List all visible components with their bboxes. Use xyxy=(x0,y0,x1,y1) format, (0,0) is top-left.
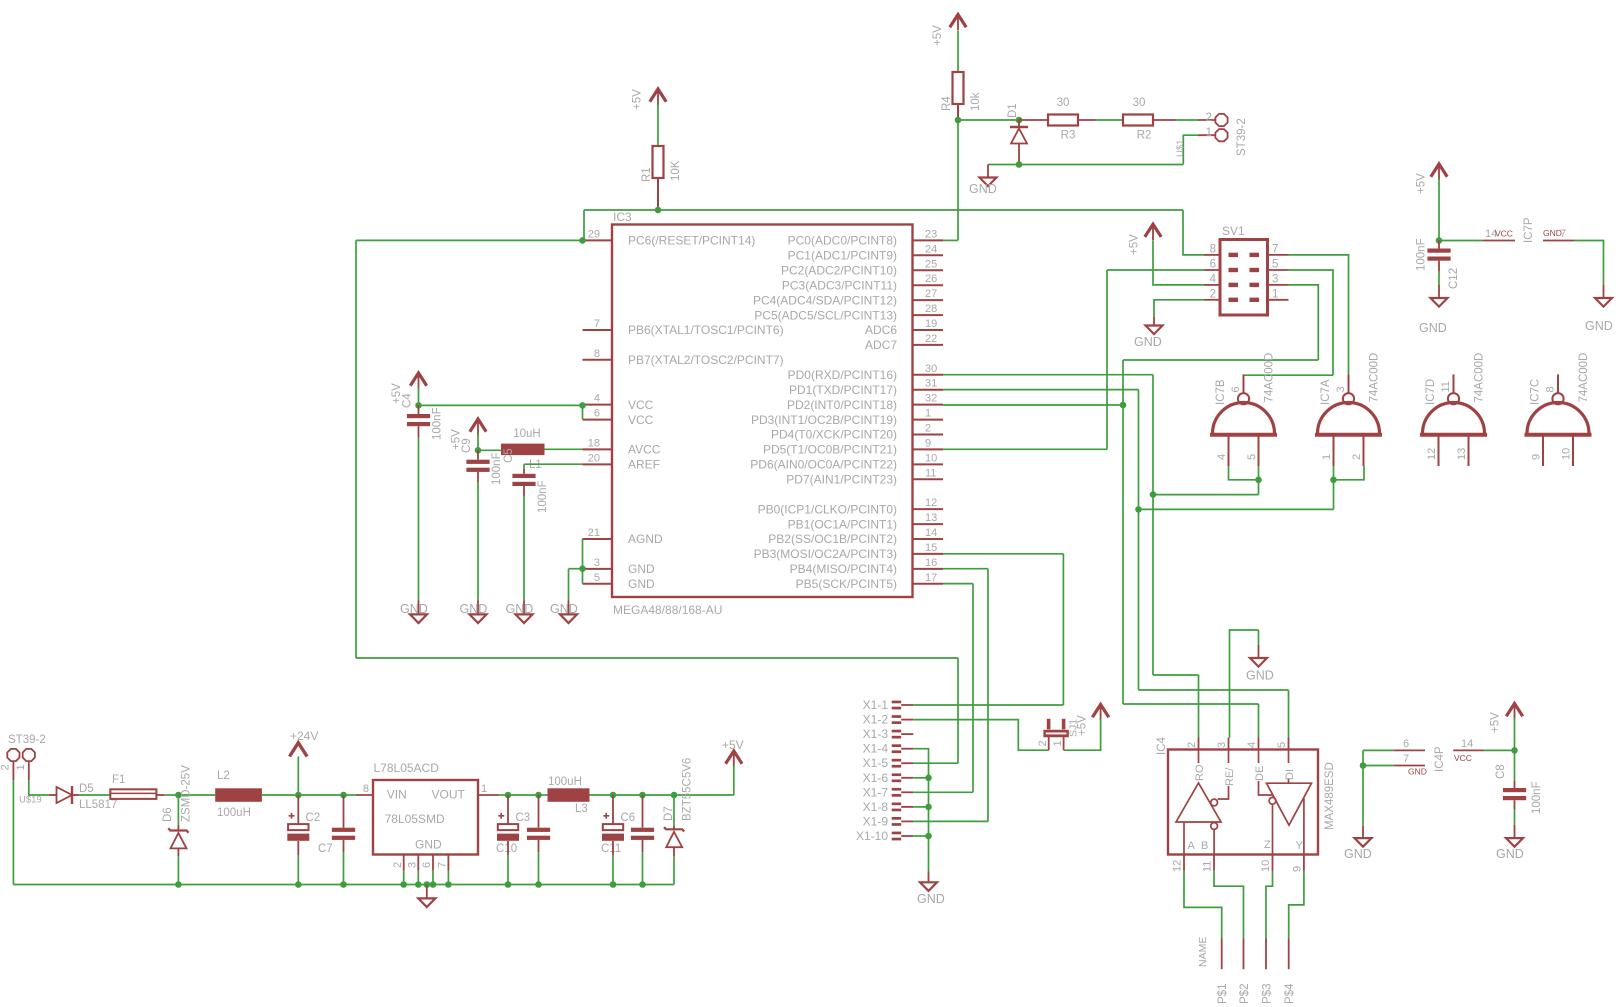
wire DE net horizontal xyxy=(1123,703,1259,705)
wire C12 to GND xyxy=(1438,271,1440,285)
svg-text:3: 3 xyxy=(407,862,419,868)
svg-text:GND: GND xyxy=(460,602,488,616)
+5V supply arrow xyxy=(410,373,426,386)
wire MOSI vertical xyxy=(1062,554,1064,705)
junction DI net xyxy=(1135,506,1142,513)
wire DI net to pin 5 xyxy=(1288,690,1290,738)
wire pin 32 INT0 xyxy=(943,404,1123,406)
wire +24V arrow to node xyxy=(297,757,299,796)
IC3 pin 28 PC5(ADC5/SCL/PCINT13) (right) xyxy=(913,314,944,316)
connector U$1 ST39-2 pin 1 stub xyxy=(1198,134,1215,136)
svg-text:100nF: 100nF xyxy=(1416,238,1428,271)
junction C7 top xyxy=(340,792,347,799)
svg-text:+5V: +5V xyxy=(932,25,944,46)
svg-text:VIN: VIN xyxy=(387,788,407,802)
svg-text:1: 1 xyxy=(1052,740,1064,746)
wire pin 31 TXD xyxy=(943,389,1139,391)
ground symbol (SV1) xyxy=(1146,326,1163,335)
wire DI net to IC7A inputs xyxy=(1139,508,1334,510)
wire X1-10 xyxy=(913,835,928,837)
ground symbol (D1) xyxy=(980,178,997,187)
wire +5V to R4 xyxy=(957,31,959,72)
svg-text:2: 2 xyxy=(0,764,12,770)
svg-text:GND: GND xyxy=(628,577,655,591)
svg-text:ADC7: ADC7 xyxy=(865,338,897,352)
svg-text:R4: R4 xyxy=(941,96,953,111)
svg-text:2: 2 xyxy=(1210,288,1216,300)
svg-text:C10: C10 xyxy=(496,843,517,855)
svg-text:PB5(SCK/PCINT5): PB5(SCK/PCINT5) xyxy=(796,577,897,591)
wire X1-6 xyxy=(913,777,928,779)
svg-text:10: 10 xyxy=(1561,448,1573,460)
wire B to P$2 xyxy=(1214,871,1244,939)
svg-text:27: 27 xyxy=(925,288,937,300)
resistor R4 xyxy=(953,72,964,104)
svg-text:U$1: U$1 xyxy=(1175,140,1186,157)
svg-text:PD3(INT1/OC2B/PCINT19): PD3(INT1/OC2B/PCINT19) xyxy=(751,413,897,427)
svg-text:PC3(ADC3/PCINT11): PC3(ADC3/PCINT11) xyxy=(782,278,897,292)
wire SV1 pin5 down xyxy=(1289,270,1334,375)
IC3 pin 7 PB6(XTAL1/TOSC1/PCINT6) (left) xyxy=(583,329,613,331)
pad ST39-2 pin 2 (bottom) xyxy=(7,749,19,761)
svg-text:PB6(XTAL1/TOSC1/PCINT6): PB6(XTAL1/TOSC1/PCINT6) xyxy=(628,323,784,337)
wire xyxy=(613,794,643,796)
wire RE to GND xyxy=(1230,630,1259,738)
ground symbol (X1) xyxy=(920,882,937,891)
svg-text:ST39-2: ST39-2 xyxy=(1236,118,1248,156)
svg-text:13: 13 xyxy=(1456,448,1468,460)
78L05 pin 7 (bottom) xyxy=(447,855,449,871)
svg-text:IC7P: IC7P xyxy=(1523,217,1535,243)
ground symbol (C4) xyxy=(410,614,427,623)
wire IC7A inputs tie xyxy=(1334,466,1365,480)
svg-text:GND: GND xyxy=(1496,847,1524,861)
svg-text:BZT55C5V6: BZT55C5V6 xyxy=(682,758,694,821)
svg-text:6: 6 xyxy=(421,862,433,868)
svg-text:25: 25 xyxy=(925,258,937,270)
wire X1-9 MISO xyxy=(913,820,988,822)
svg-text:L3: L3 xyxy=(575,803,588,815)
zener diode D7 BZT55C5V6 xyxy=(664,826,684,856)
wire xyxy=(539,794,548,796)
+5V supply arrow xyxy=(1431,164,1447,177)
svg-text:D7: D7 xyxy=(663,806,675,821)
IC3 ATmega box xyxy=(612,225,913,598)
wire IC4P pin7 xyxy=(1363,765,1394,767)
wire L2 to +24V node xyxy=(262,794,298,796)
SV1 pin 7 (right) xyxy=(1268,254,1289,256)
svg-text:2: 2 xyxy=(1186,742,1198,748)
wire IC7P GND pin to ground xyxy=(1574,241,1604,286)
svg-text:4: 4 xyxy=(1210,273,1217,285)
capacitor C10 (electrolytic) xyxy=(497,813,519,841)
IC4 pin 10 (bottom) xyxy=(1272,855,1274,871)
svg-text:3: 3 xyxy=(1335,386,1347,392)
wire pin23 stub link xyxy=(943,239,958,241)
svg-text:SV1: SV1 xyxy=(1222,224,1245,238)
svg-text:10K: 10K xyxy=(670,160,682,181)
svg-text:5: 5 xyxy=(1272,259,1278,271)
wire +5V to SV1 pin4 xyxy=(1153,241,1204,285)
IC3 pin 30 PD0(RXD/PCINT16) (right) xyxy=(913,374,944,376)
svg-text:10: 10 xyxy=(925,452,937,464)
IC4 pin 4 (top) xyxy=(1258,738,1260,750)
IC3 pin 24 PC1(ADC1/PCINT9) (right) xyxy=(913,254,944,256)
IC1 78L05 box xyxy=(373,780,478,855)
svg-text:1: 1 xyxy=(1321,454,1333,460)
wire Z to P$3 xyxy=(1266,871,1273,939)
svg-text:20: 20 xyxy=(588,452,600,464)
junction C12 / VCC pin xyxy=(1436,237,1443,244)
svg-text:7: 7 xyxy=(1560,228,1566,240)
svg-text:+5V: +5V xyxy=(1129,234,1141,255)
svg-text:ZSMD-25V: ZSMD-25V xyxy=(181,765,193,822)
svg-text:MEGA48/88/168-AU: MEGA48/88/168-AU xyxy=(613,603,722,617)
junction C7 bus xyxy=(340,881,347,888)
IC4 pin 12 (bottom) xyxy=(1183,855,1185,871)
ground symbol (C8) xyxy=(1506,838,1523,847)
wire +5V down to C12/VCC xyxy=(1438,178,1440,241)
svg-text:28: 28 xyxy=(925,303,937,315)
svg-text:P$1: P$1 xyxy=(1217,984,1229,1004)
wire to D7 xyxy=(673,795,675,826)
78L05 pin 6 (bottom) xyxy=(432,855,434,871)
junction D7 top xyxy=(671,792,678,799)
svg-text:22: 22 xyxy=(925,333,937,345)
svg-text:D1: D1 xyxy=(1007,103,1019,118)
wire SV1 pin3 down xyxy=(1289,285,1319,360)
IC3 pin 15 PB3(MOSI/OC2A/PCINT3) (right) xyxy=(913,553,944,555)
SV1 pin 3 (right) xyxy=(1268,284,1289,286)
wire IC4P to ground xyxy=(1362,766,1364,826)
svg-text:+5V: +5V xyxy=(632,89,644,110)
resistor R1 xyxy=(653,146,664,178)
svg-text:IC4: IC4 xyxy=(1156,737,1168,756)
pad ST39-2 pin 1 (bottom) xyxy=(23,749,35,761)
IC4 MAX489ESD box xyxy=(1168,750,1318,855)
connector pin X1-4 xyxy=(892,744,902,753)
svg-text:R2: R2 xyxy=(1137,130,1152,142)
svg-text:6: 6 xyxy=(1230,386,1242,392)
svg-text:2: 2 xyxy=(1037,740,1049,746)
wire +5V to C9 xyxy=(477,433,479,450)
connector pin X1-3 xyxy=(892,730,902,739)
inductor L1 xyxy=(501,444,545,456)
wire X1-1 MOSI xyxy=(913,704,1063,706)
svg-text:PD2(INT0/PCINT18): PD2(INT0/PCINT18) xyxy=(787,398,897,412)
svg-text:31: 31 xyxy=(925,378,937,390)
wire A to P$1 xyxy=(1184,871,1222,939)
+5V supply arrow xyxy=(1092,705,1108,718)
+5V supply arrow xyxy=(1145,224,1161,237)
wire R3 to R2 xyxy=(1096,119,1123,121)
svg-text:1: 1 xyxy=(15,764,27,770)
svg-text:MAX489ESD: MAX489ESD xyxy=(1324,762,1336,830)
svg-text:PB7(XTAL2/TOSC2/PCINT7): PB7(XTAL2/TOSC2/PCINT7) xyxy=(628,353,784,367)
wire R2 to pad xyxy=(1176,119,1198,121)
wire to ST39-2 pin 1 xyxy=(1183,135,1198,164)
wire IC7A pin1 down xyxy=(1333,466,1335,509)
svg-text:2: 2 xyxy=(1206,112,1212,124)
pad P$4 stub xyxy=(1288,939,1290,970)
wire VOUT net xyxy=(499,794,508,796)
svg-text:30: 30 xyxy=(1133,97,1146,109)
svg-text:GND: GND xyxy=(415,838,442,852)
svg-text:+24V: +24V xyxy=(290,729,318,743)
svg-text:IC4P: IC4P xyxy=(1434,746,1446,772)
svg-text:PB1(OC1A/PCINT1): PB1(OC1A/PCINT1) xyxy=(788,517,897,531)
IC3 pin 14 PB2(SS/OC1B/PCINT2) (right) xyxy=(913,538,944,540)
wire +5V out xyxy=(674,794,734,796)
svg-text:3: 3 xyxy=(1216,742,1228,748)
svg-text:AREF: AREF xyxy=(628,458,660,472)
IC3 pin 13 PB1(OC1A/PCINT1) (right) xyxy=(913,523,944,525)
svg-text:3: 3 xyxy=(594,557,600,569)
wire down to D6 xyxy=(177,795,179,825)
svg-text:X1-7: X1-7 xyxy=(863,785,889,799)
wire C5 to GND xyxy=(523,496,525,601)
junction D6 bus xyxy=(175,881,182,888)
wire RE gnd drop xyxy=(1258,630,1260,645)
svg-text:12: 12 xyxy=(1172,860,1184,872)
svg-text:100nF: 100nF xyxy=(1531,781,1543,814)
ground symbol (IC7P) xyxy=(1595,298,1612,307)
svg-text:+5V: +5V xyxy=(1490,712,1502,733)
connector pin X1-2 xyxy=(892,715,902,724)
connector pin X1-7 xyxy=(892,788,902,797)
78L05 pin 2 (bottom) xyxy=(403,855,405,871)
svg-text:19: 19 xyxy=(925,318,937,330)
svg-text:6: 6 xyxy=(594,408,600,420)
wire X1-4 GND xyxy=(913,749,928,872)
junction C4 / VCC net xyxy=(415,402,422,409)
svg-text:5: 5 xyxy=(594,572,600,584)
svg-text:C6: C6 xyxy=(621,812,636,824)
svg-text:74AC00D: 74AC00D xyxy=(1369,353,1381,403)
capacitor C11 xyxy=(631,828,654,840)
svg-text:9: 9 xyxy=(925,437,931,449)
connector pin X1-9 xyxy=(892,817,902,826)
wire SJ1 pin1 to +5V xyxy=(1064,719,1101,751)
svg-text:Y: Y xyxy=(1296,840,1304,852)
junction IC7A pin1 xyxy=(1330,477,1337,484)
svg-text:11: 11 xyxy=(1202,861,1214,872)
junction C10 top xyxy=(505,792,512,799)
pad P$1 stub xyxy=(1221,939,1223,970)
svg-text:PD0(RXD/PCINT16): PD0(RXD/PCINT16) xyxy=(788,368,897,382)
diode D5 LL5817 xyxy=(49,786,79,804)
svg-text:23: 23 xyxy=(925,228,937,240)
IC4 driver symbol xyxy=(1259,750,1312,855)
capacitor C2 (electrolytic) xyxy=(287,813,309,841)
connector pin X1-10 xyxy=(892,832,902,841)
ground symbol (IC3 GND) xyxy=(560,614,577,623)
wire xyxy=(643,794,675,796)
svg-text:F1: F1 xyxy=(112,774,125,786)
svg-text:PC2(ADC2/PCINT10): PC2(ADC2/PCINT10) xyxy=(781,264,897,278)
svg-text:16: 16 xyxy=(925,557,937,569)
capacitor C12 xyxy=(1427,249,1450,261)
svg-text:6: 6 xyxy=(1210,259,1216,271)
wire X1-5 RESET xyxy=(913,762,958,764)
78L05 pin 8 xyxy=(356,794,373,796)
pad P$2 stub xyxy=(1243,939,1245,970)
connector pin X1-6 xyxy=(892,773,902,782)
ground stub (78L05) xyxy=(424,881,431,888)
IC4P pin 14 VCC xyxy=(1453,749,1484,751)
svg-text:A: A xyxy=(1188,840,1196,852)
svg-text:P$3: P$3 xyxy=(1262,984,1274,1004)
ground symbol (78L05) xyxy=(418,898,435,907)
svg-text:12: 12 xyxy=(1426,448,1438,460)
svg-text:74AC00D: 74AC00D xyxy=(1578,353,1590,403)
wire IC7B pin5 down xyxy=(1258,466,1260,495)
IC3 pin 22 ADC7 (right) xyxy=(913,344,944,346)
wire RESET left xyxy=(356,239,583,241)
svg-text:1: 1 xyxy=(1206,127,1212,139)
svg-text:7: 7 xyxy=(1272,243,1278,255)
wire C4 to GND xyxy=(418,437,420,601)
svg-text:X1-9: X1-9 xyxy=(863,814,889,828)
svg-text:VCC: VCC xyxy=(1495,229,1513,239)
IC3 pin 3 GND (left) xyxy=(583,568,613,570)
wire RESET down to X1-5 xyxy=(957,658,959,763)
svg-text:PD7(AIN1/PCINT23): PD7(AIN1/PCINT23) xyxy=(786,473,897,487)
capacitor C7 xyxy=(332,828,355,840)
svg-text:C4: C4 xyxy=(402,393,414,408)
connector SV1 box xyxy=(1220,240,1268,316)
svg-text:VOUT: VOUT xyxy=(432,788,466,802)
svg-text:PD6(AIN0/OC0A/PCINT22): PD6(AIN0/OC0A/PCINT22) xyxy=(750,458,897,472)
svg-text:D5: D5 xyxy=(79,783,94,795)
wire xyxy=(417,871,419,885)
svg-text:30: 30 xyxy=(925,363,937,375)
junction RO net xyxy=(1150,491,1157,498)
svg-text:GND: GND xyxy=(1408,767,1427,777)
svg-text:74AC00D: 74AC00D xyxy=(1264,353,1276,403)
ground symbol (RE) xyxy=(1250,658,1267,667)
wire pin 9 PD5 xyxy=(943,448,1107,450)
IC3 pin 8 PB7(XTAL2/TOSC2/PCINT7) (left) xyxy=(583,359,613,361)
wire to IC7P VCC pin xyxy=(1439,240,1483,242)
wire RO net vertical xyxy=(1152,375,1154,675)
wire RO net to pin 2 xyxy=(1198,675,1200,738)
IC4 pin 9 (bottom) xyxy=(1303,855,1305,871)
svg-text:2: 2 xyxy=(1351,454,1363,460)
wire D1 anode to pad 1 xyxy=(1019,164,1183,166)
svg-text:C8: C8 xyxy=(1495,764,1507,779)
wire pin 16 MISO xyxy=(943,568,988,570)
wire pin 30 RXD xyxy=(943,374,1153,376)
svg-text:GND: GND xyxy=(1419,321,1447,335)
svg-text:14: 14 xyxy=(925,527,937,539)
IC3 pin 1 PD3(INT1/OC2B/PCINT19) (right) xyxy=(913,419,944,421)
wire VCC to +5V xyxy=(1484,749,1514,751)
wire MCU GND down xyxy=(568,569,570,601)
svg-text:VCC: VCC xyxy=(628,413,654,427)
junction C8 / +5V xyxy=(1511,747,1518,754)
svg-text:PB4(MISO/PCINT4): PB4(MISO/PCINT4) xyxy=(790,562,897,576)
wire DE net to pin 4 xyxy=(1258,704,1260,738)
svg-text:X1-8: X1-8 xyxy=(863,800,889,814)
svg-text:B: B xyxy=(1201,840,1208,852)
pad ST39-2 pin 2 xyxy=(1215,114,1227,126)
wire X1-2 to SJ1 pin2 xyxy=(913,720,1048,751)
svg-text:C3: C3 xyxy=(516,812,531,824)
svg-text:13: 13 xyxy=(925,512,937,524)
junction C9 / AVCC net xyxy=(475,447,482,454)
svg-text:X1-1: X1-1 xyxy=(863,698,889,712)
wire AGND to GND pins xyxy=(582,539,584,569)
svg-text:R1: R1 xyxy=(641,167,653,182)
svg-text:IC7A: IC7A xyxy=(1320,379,1332,405)
wire RESET bottom horizontal xyxy=(356,657,958,659)
wire D1 to GND xyxy=(988,164,1019,166)
wire C9 to GND xyxy=(477,482,479,601)
+5V supply arrow xyxy=(470,419,486,432)
junction D1 anode / GND xyxy=(1016,161,1023,168)
wire pad2 to ground bus xyxy=(12,780,14,884)
svg-text:11: 11 xyxy=(925,467,936,479)
svg-text:X1-4: X1-4 xyxy=(863,742,889,756)
wire pin 17 SCK xyxy=(943,583,973,585)
svg-text:100uH: 100uH xyxy=(548,776,582,788)
svg-text:DI: DI xyxy=(1284,769,1296,780)
svg-text:29: 29 xyxy=(588,228,600,240)
svg-text:LL5817: LL5817 xyxy=(79,799,117,811)
junction C6 bus xyxy=(610,881,617,888)
wire +5V to R1 xyxy=(657,103,659,146)
svg-text:4: 4 xyxy=(1216,454,1228,460)
wire RESET to SV1 pin 8 xyxy=(1183,210,1204,255)
78L05 pin 3 (bottom) xyxy=(417,855,419,871)
wire R4 to D1/R3 xyxy=(958,119,1019,121)
svg-text:24: 24 xyxy=(925,243,937,255)
IC3 pin 19 ADC6 (right) xyxy=(913,329,944,331)
svg-text:C7: C7 xyxy=(318,843,333,855)
IC3 pin 26 PC3(ADC3/PCINT11) (right) xyxy=(913,284,944,286)
capacitor C8 xyxy=(1503,788,1526,800)
svg-text:RO: RO xyxy=(1194,764,1206,781)
svg-text:GND: GND xyxy=(628,562,655,576)
svg-text:7: 7 xyxy=(1403,753,1409,765)
SJ1 pin 2 lead xyxy=(1048,737,1050,751)
78L05 pin 1 xyxy=(478,794,499,796)
wire pad1 to D5 xyxy=(29,780,49,795)
IC3 pin 20 AREF (left) xyxy=(583,463,613,465)
SJ1 pin 1 lead xyxy=(1063,737,1065,751)
svg-text:2: 2 xyxy=(392,862,404,868)
ST39-2 pin 2 stub xyxy=(12,762,14,781)
wire X1-7 SCK xyxy=(913,791,973,793)
wire PC0 net down to pin 23 xyxy=(957,120,959,240)
SV1 pin 6 (left) xyxy=(1204,269,1220,271)
svg-text:12: 12 xyxy=(925,497,937,509)
svg-text:10: 10 xyxy=(1260,860,1272,872)
SV1 pin 5 (right) xyxy=(1268,269,1289,271)
capacitor C5 xyxy=(512,474,535,486)
wire GND pins out xyxy=(569,568,583,570)
svg-text:L78L05ACD: L78L05ACD xyxy=(374,761,440,775)
wire RESET down to pin29 xyxy=(583,210,585,240)
svg-text:+5V: +5V xyxy=(1416,173,1428,194)
svg-text:VCC: VCC xyxy=(1454,753,1472,763)
wire C2 to bus xyxy=(297,855,299,885)
connector pin X1-1 xyxy=(892,701,902,710)
junction IC7B pin5 xyxy=(1255,477,1262,484)
+24V supply arrow xyxy=(290,743,308,757)
junction INT0 tap xyxy=(1120,402,1127,409)
